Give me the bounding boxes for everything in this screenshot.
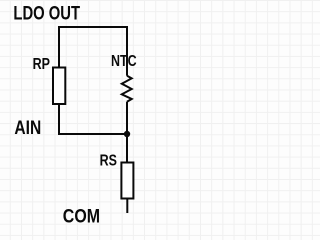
svg-text:NTC: NTC — [111, 53, 137, 71]
wire NTC to RS — [126, 102, 128, 162]
svg-text:RS: RS — [100, 152, 117, 170]
resistor RS body — [121, 163, 133, 199]
junction node AIN — [124, 131, 130, 137]
svg-text:RP: RP — [33, 56, 51, 74]
resistor RP body — [53, 68, 65, 105]
thermistor NTC zigzag — [122, 76, 132, 102]
wire RS bottom stub to COM — [126, 199, 128, 213]
wire top bracket from LDO OUT — [59, 27, 127, 76]
svg-text:LDO OUT: LDO OUT — [13, 3, 80, 24]
wire RP bottom to AIN node — [59, 105, 127, 135]
svg-text:AIN: AIN — [14, 117, 41, 139]
svg-text:COM: COM — [63, 205, 100, 227]
